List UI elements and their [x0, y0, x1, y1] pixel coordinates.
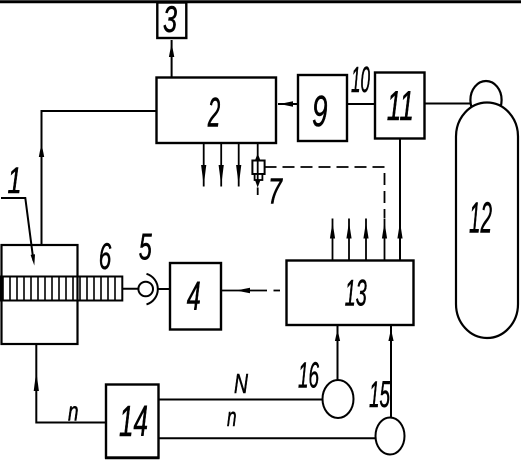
block 14 bottom edge [105, 457, 160, 459]
injector stub line c below block 2 [238, 144, 240, 187]
svg-text:3: 3 [163, 0, 177, 40]
line d above block 13 (from dashed wire) [384, 219, 386, 261]
arrow up b [346, 222, 351, 239]
arrow left into block 2 [280, 101, 294, 107]
block 14 [106, 385, 159, 458]
svg-text:n: n [227, 402, 237, 432]
svg-text:6: 6 [99, 236, 112, 277]
wire: block 9 to block 2 [278, 103, 298, 105]
exhaust line c above block 13 [365, 219, 367, 261]
exhaust line a above block 13 [332, 219, 334, 261]
wire: block 13 down to sensor 15 [390, 325, 392, 418]
tank 12 body [456, 103, 518, 339]
injector stub line a below block 2 [203, 144, 205, 187]
leader arrowhead [31, 254, 35, 265]
svg-text:12: 12 [469, 194, 492, 243]
injector 7 body [252, 161, 264, 175]
arrow up on engine riser [39, 143, 44, 157]
injector 7 stem [257, 144, 259, 161]
wire: block 2 up to block 3 [171, 40, 173, 77]
coupling 5 arc [147, 274, 158, 305]
shaft line coupling to block 4 [158, 288, 171, 290]
svg-text:5: 5 [139, 227, 152, 268]
svg-text:10: 10 [351, 59, 370, 100]
injector 7 spray arrow [255, 180, 261, 188]
svg-text:11: 11 [387, 82, 414, 129]
block 11 [375, 73, 425, 139]
svg-text:14: 14 [119, 398, 148, 446]
wire: block 11 to tank 12 [425, 103, 473, 105]
svg-text:13: 13 [345, 272, 367, 314]
shaft line to coupling [122, 288, 138, 290]
svg-text:7: 7 [268, 171, 283, 212]
injector 7 nozzle [255, 174, 263, 180]
arrow up d [382, 222, 387, 239]
block 3 [157, 3, 186, 39]
arrow on engine-14 wire [34, 371, 39, 391]
arrow up into block 13 right [388, 329, 393, 341]
arrow left into block 4 [236, 288, 250, 293]
injector 7 tail line [257, 188, 259, 196]
dashed wire: block 13 to block 4 [221, 290, 267, 292]
arrow down stub b [219, 165, 224, 186]
wire: block 14 n output to sensor 15 [158, 437, 376, 439]
injector 7 top cone [255, 154, 261, 161]
wire: engine 1 down to block 14 [36, 344, 106, 423]
block 13 [287, 261, 414, 326]
svg-text:4: 4 [187, 273, 201, 319]
injector 7 body center line [257, 161, 259, 175]
engine 1 block outline [2, 245, 78, 344]
injector stub line b below block 2 [220, 144, 222, 187]
wire: block 11 down to block 13 [399, 139, 401, 260]
leader line for label 1 [1, 198, 34, 261]
wire: engine 1 riser to block 2 [42, 111, 157, 244]
injector 7 nozzle center line [257, 174, 259, 180]
coupling 5 circle [138, 282, 153, 297]
block 9 [298, 75, 347, 141]
arrow up e on wire from block 11 [397, 222, 402, 239]
shaft band hatching [3, 277, 115, 300]
wire: block 9 to block 11 [347, 103, 375, 105]
arrow down stub a [201, 165, 206, 186]
svg-text:9: 9 [312, 87, 328, 136]
top frame line [0, 0, 521, 3]
svg-text:2: 2 [207, 88, 220, 135]
tank 12 dome [470, 81, 501, 119]
wire: block 13 down to sensor 16 [337, 325, 339, 381]
sensor 15 circle [376, 418, 405, 455]
svg-text:N: N [234, 368, 248, 399]
svg-text:1: 1 [8, 159, 22, 201]
dashed wire: injector 7 to block 13 via top [265, 167, 385, 218]
wire: block 14 N output to sensor 16 [158, 399, 323, 401]
engine 1 shaft band [1, 277, 122, 301]
arrow up into block 3 [169, 43, 174, 57]
arrow down stub c [236, 165, 241, 186]
svg-text:16: 16 [298, 355, 320, 396]
block 4 [170, 263, 221, 330]
block 2 [157, 78, 277, 144]
arrow up c [363, 222, 368, 239]
sensor 16 circle [323, 380, 354, 418]
svg-text:n: n [68, 397, 79, 427]
svg-text:15: 15 [369, 374, 390, 415]
exhaust line b above block 13 [348, 219, 350, 261]
arrow up into block 13 left [335, 329, 340, 341]
arrow up a [330, 222, 335, 239]
